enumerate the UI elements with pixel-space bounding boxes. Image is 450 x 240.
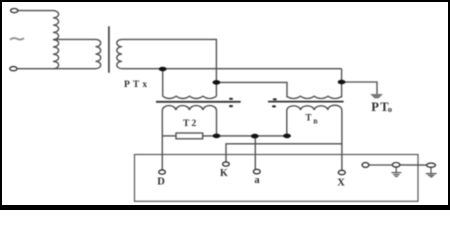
wire node D1 down to T2 — [162, 69, 164, 97]
AC source tilde — [10, 38, 24, 40]
transformer T2 core bar — [156, 101, 241, 103]
node D4 junction — [213, 134, 221, 139]
wire ground strip 1 — [369, 164, 392, 166]
node D3 junction — [338, 80, 346, 85]
svg-text:D: D — [157, 177, 165, 188]
wire PTx bottom — [122, 68, 342, 70]
resistor R — [176, 133, 203, 139]
polarity dot TB top — [273, 98, 277, 100]
terminal G1 — [392, 163, 400, 168]
ground G1 — [392, 167, 402, 176]
wire resistor right to node D6 — [203, 135, 287, 137]
svg-text:T2: T2 — [183, 119, 199, 129]
svg-text:T: T — [306, 112, 312, 122]
terminal a — [253, 169, 260, 174]
wire node D5 to terminal a — [254, 136, 256, 169]
transformer TB lower winding — [287, 105, 342, 110]
frame borders — [0, 0, 2, 210]
terminal X — [338, 170, 345, 174]
wire variac tap — [54, 38, 96, 40]
variac winding — [53, 11, 59, 69]
node D6 junction — [283, 134, 291, 139]
polarity dot T2 bottom — [229, 105, 233, 107]
svg-text:X: X — [337, 178, 345, 189]
node D1 junction — [159, 67, 167, 72]
terminal G2 — [427, 163, 436, 167]
transformer T2 lower winding — [162, 106, 216, 110]
transformer T2 upper winding — [163, 96, 217, 98]
wire source bottom — [17, 68, 96, 70]
ground symbol PTo — [370, 94, 383, 98]
transformer PT core — [108, 26, 110, 73]
terminal circle source bottom — [10, 67, 17, 71]
wire node D3 to ground PTo — [342, 82, 377, 94]
terminal G0 open — [362, 163, 369, 168]
wire terminal K — [226, 144, 342, 162]
transformer PT secondary winding PTx — [117, 39, 122, 68]
polarity dot T2 top — [229, 98, 233, 100]
wire ground strip 2 — [400, 164, 427, 166]
node D5 junction — [251, 134, 259, 139]
node D2 junction — [213, 80, 221, 85]
wire PTx top — [122, 39, 216, 96]
terminal D — [159, 170, 166, 174]
terminal circle source top — [11, 9, 18, 13]
measurement box — [135, 155, 419, 202]
wire T2 right to node D4 — [216, 110, 218, 136]
wire TB right to terminal X — [341, 110, 343, 171]
wire to resistor left — [162, 135, 176, 137]
transformer TB core bar — [268, 101, 344, 103]
transformer PT primary winding — [96, 39, 101, 68]
terminal K — [223, 162, 230, 166]
svg-text:PTx: PTx — [124, 80, 150, 90]
svg-text:o: o — [388, 104, 392, 114]
wire right end down to TB — [341, 69, 343, 98]
ground G2 — [426, 167, 437, 177]
svg-text:K: K — [220, 168, 228, 179]
wire node D2 to TB left — [216, 82, 287, 97]
svg-text:B: B — [313, 119, 318, 126]
wire TB left to node D6 — [286, 110, 288, 136]
transformer TB upper winding — [287, 96, 342, 98]
polarity dot TB bottom — [272, 105, 276, 107]
wire source top — [18, 10, 54, 12]
wire T2 left to terminal D — [161, 110, 163, 170]
svg-text:a: a — [254, 175, 260, 186]
